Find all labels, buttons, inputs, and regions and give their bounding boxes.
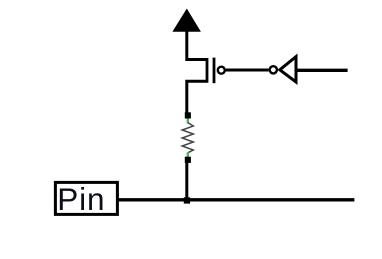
svg-text:Pin: Pin [57, 181, 105, 217]
